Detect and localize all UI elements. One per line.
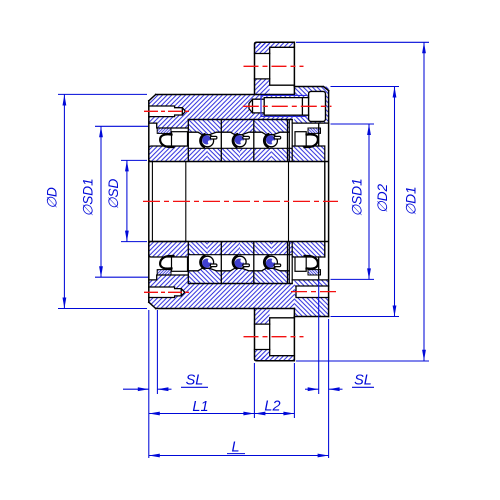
dim OSD1-right extension bottom (331, 278, 375, 280)
joint line 4 bottom (287, 242, 289, 284)
bottom-right through hole (white) (296, 286, 329, 298)
outer block 3 raceway profile bottom (254, 268, 289, 271)
housing bottom-left chamfer (149, 302, 156, 308)
joint line 2 bottom (220, 242, 222, 284)
right seal lip top (305, 134, 318, 147)
dim L1 arrow right (243, 412, 254, 416)
rolling element bottom row 1 (200, 255, 217, 269)
top flange strip under hole (white) (270, 85, 295, 94)
bottom-right hole centerline (red) (291, 291, 337, 293)
dim OSD1-left arrow top (99, 126, 103, 137)
top flange hatched strip (255, 42, 295, 47)
top flange hole outline (270, 47, 295, 85)
rolling element bottom row 3 (264, 255, 281, 269)
dim SL-left tail left (123, 388, 149, 390)
bottom flange left column lines (255, 324, 270, 349)
inner ring band top segment 3 (240, 148, 271, 161)
svg-text:SL: SL (186, 373, 204, 389)
dim L2 arrow right (283, 412, 294, 416)
right seal lip bottom (305, 256, 318, 269)
outer raceway block 3 top (254, 120, 289, 135)
dim OD arrow top (63, 95, 67, 106)
bottom-left mounting hole (white) (149, 287, 185, 298)
left slinger band top (hatched) (149, 146, 189, 162)
housing outer ring top band (hatched) (149, 95, 295, 129)
top-right stud outline (249, 98, 309, 116)
dim SL-left tail right (157, 388, 171, 390)
dim OD1 arrow top (422, 42, 426, 53)
rolling element top row 3 (264, 134, 281, 148)
bottom-left hole centerline (red) (144, 291, 191, 293)
dim L2 arrow left (254, 412, 265, 416)
top flange hole centerline (red) (244, 65, 304, 67)
housing top-left chamfer (149, 95, 156, 101)
right seal body block bottom (295, 257, 306, 271)
top flange left column upper hatch (255, 42, 270, 53)
svg-text:L2: L2 (264, 399, 280, 415)
dim OSD1-left extension bottom (95, 276, 148, 278)
dim OD2 arrow top (393, 87, 397, 98)
bottom-right hole outline (296, 286, 329, 298)
left seal lip bottom (160, 256, 173, 269)
svg-text:∅SD1: ∅SD1 (81, 178, 96, 216)
dim OSD1-right extension top (331, 123, 375, 125)
extension line x=294.4 (293, 363, 295, 418)
joint line 2 top (220, 120, 222, 162)
housing right flange block upper (hatched) (294, 87, 328, 124)
right block left edge lower (293, 309, 295, 317)
dim L1 arrow left (149, 412, 160, 416)
right seal retainer top (fine hatch) (308, 128, 321, 133)
right seal body block top (295, 132, 306, 146)
svg-text:∅D: ∅D (45, 187, 60, 209)
dim OSD line (126, 160, 128, 241)
dim SL-left underline (181, 386, 208, 388)
outer raceway block 2 top (221, 120, 254, 135)
dim SL-left arrow right (157, 387, 168, 391)
dim OD line (63, 95, 65, 309)
housing left face (148, 101, 150, 302)
bearing cavity top line (188, 119, 292, 121)
dim OSD1-right arrow top (367, 124, 371, 135)
dim OD1 line (423, 42, 425, 360)
dim SL-right arrow right (329, 387, 340, 391)
joint line 1 bottom (187, 242, 189, 284)
inner ring band top segment 1 (188, 148, 207, 161)
stud thread lines (blue) (261, 95, 306, 116)
bottom flange left column lower hatch (255, 350, 270, 361)
dim OSD extension top (121, 159, 147, 161)
dim L2 line (254, 413, 294, 415)
joint line 4 top (287, 120, 289, 162)
top-right stud head (white) (309, 91, 326, 121)
bearing cavity bottom line (188, 283, 292, 285)
bottom flange hole centerline (red) (244, 336, 304, 338)
svg-text:∅D1: ∅D1 (404, 186, 419, 215)
svg-text:SL: SL (354, 373, 372, 389)
bottom flange left column window (white) (255, 324, 270, 349)
main horizontal centerline (red) (143, 200, 338, 202)
right seal pocket ceiling top (292, 122, 328, 124)
top-right stud end (white) (249, 99, 264, 113)
bore face line x=185.8 (185, 162, 187, 242)
inner ring band bottom segment 1 (188, 242, 207, 255)
dim SL-right tail left (305, 388, 319, 390)
dim OD2 extension top (331, 86, 400, 88)
top flange bolt hole (white) (270, 47, 295, 85)
inner ring band bottom segment 4 (271, 242, 292, 255)
joint line 1 top (187, 120, 189, 162)
inner ring band bottom segment 3 (240, 242, 271, 255)
outer block 1 raceway profile bottom (188, 268, 221, 271)
extension line x=157.4 (156, 310, 158, 394)
dim OD2 line (394, 87, 396, 317)
left slinger band bottom outline (149, 242, 189, 258)
top flange outline (255, 42, 295, 94)
left seal retainer bottom (fine hatch) (157, 270, 171, 275)
bore face line x=324.8 (324, 162, 326, 242)
right block left edge upper (293, 87, 295, 95)
right block top edge (294, 87, 328, 91)
right slinger band top (hatched) (292, 146, 325, 162)
outer block 3 raceway profile top (254, 132, 289, 135)
svg-text:∅SD: ∅SD (106, 178, 121, 209)
joint line 3 top (253, 120, 255, 162)
bore face line x=288.5 (288, 162, 290, 242)
outer raceway block 1 top (188, 120, 221, 135)
right slinger band bottom outline (292, 242, 325, 258)
right slinger lip top (318, 123, 320, 146)
outer raceway block 1 bottom (188, 268, 221, 283)
outer raceway block 2 bottom (221, 268, 254, 283)
dim L line (149, 455, 329, 457)
dim OD arrow bottom (63, 298, 67, 309)
right block bottom edge (294, 316, 328, 318)
right seal retainer bottom (fine hatch) (308, 270, 321, 275)
svg-text:L1: L1 (192, 399, 208, 415)
dim L1 line (149, 413, 255, 415)
dim SL-right tail right (329, 388, 343, 390)
dim L arrow left (149, 454, 160, 458)
bottom flange outline (255, 309, 295, 361)
right slinger lip bottom (318, 257, 320, 280)
outer block 2 raceway profile bottom (221, 268, 254, 271)
bottom flange left column upper hatch (255, 309, 270, 325)
bore top line (149, 161, 329, 163)
top-right stud centerline (red) (243, 105, 332, 107)
top flange left column lines (255, 54, 270, 79)
svg-text:∅D2: ∅D2 (375, 183, 390, 213)
slot left line top (288, 120, 290, 162)
dim OSD arrow top (125, 160, 129, 171)
right slinger band bottom (hatched) (292, 242, 325, 258)
bottom flange bolt hole (white) (270, 318, 295, 356)
dim OSD1-right line (368, 124, 370, 279)
dim OD extension bottom (58, 308, 147, 310)
inner ring band top segment 4 (271, 148, 292, 161)
dim SL-right arrow left (308, 387, 319, 391)
bottom flange hole outline (270, 318, 295, 356)
dim OSD extension bottom (121, 241, 147, 243)
rolling element top row 2 (233, 134, 250, 148)
dim OSD1-right arrow bottom (367, 268, 371, 279)
left seal pocket step top (149, 123, 189, 128)
housing top edge (156, 94, 295, 96)
dim OSD1-left line (100, 126, 102, 277)
left seal body block bottom (172, 257, 188, 271)
bore bottom line (149, 241, 329, 243)
left seal pocket step bottom (149, 275, 189, 280)
dim OD2 extension bottom (331, 316, 400, 318)
top-left mounting hole (white) (149, 106, 186, 117)
inner ring band top edge (188, 147, 292, 149)
top-left hole centerline (red) (144, 110, 191, 112)
left seal body block top (172, 132, 188, 146)
bottom-left hole outline (149, 287, 185, 298)
extension line x=318.7 (318, 280, 320, 395)
housing outer ring bottom band (hatched) (149, 275, 295, 309)
right block chamfer corner (323, 87, 328, 91)
left seal lip top (160, 134, 173, 147)
joint line 3 bottom (253, 242, 255, 284)
dim OSD1-left arrow bottom (99, 266, 103, 277)
extension line x=254.4 (253, 363, 255, 418)
extension line x=328.6 (328, 319, 330, 458)
inner ring band bottom edge (188, 254, 292, 256)
housing right face (328, 91, 330, 317)
svg-text:∅SD1: ∅SD1 (350, 178, 365, 216)
dim OD1 extension top (296, 41, 429, 43)
outer block 1 raceway profile top (188, 132, 221, 135)
outer raceway block 3 bottom (254, 268, 289, 283)
dim OSD1-left extension top (95, 125, 148, 127)
right seal pocket ceiling bottom (292, 279, 328, 281)
dim OD extension top (58, 93, 147, 95)
top flange left column lower hatch (255, 79, 270, 95)
dim L arrow right (318, 454, 329, 458)
dim L underline (227, 453, 245, 455)
bore face line x=152.4 (151, 162, 153, 242)
extension line x=148.8 (148, 310, 150, 458)
dim OSD arrow bottom (125, 231, 129, 242)
slot right line top (291, 120, 293, 162)
rolling element top row 1 (200, 134, 217, 148)
left slinger band top outline (149, 146, 189, 162)
slot left line bottom (288, 242, 290, 284)
top-right stud shank hole (white) (264, 98, 308, 116)
dim SL-right underline (352, 386, 374, 388)
bottom flange strip above hole (white) (270, 309, 295, 318)
housing right flange block lower (hatched) (294, 280, 328, 317)
dim SL-left arrow left (138, 387, 149, 391)
bottom flange hatched strip (255, 356, 295, 361)
inner ring band bottom segment 2 (208, 242, 241, 255)
left slinger band bottom (hatched) (149, 242, 189, 258)
top-right stud head outline (309, 91, 326, 121)
rolling element bottom row 2 (233, 255, 250, 269)
outer block 2 raceway profile top (221, 132, 254, 135)
slot right line bottom (291, 242, 293, 284)
top-left hole outline (149, 106, 186, 117)
dim OD1 extension bottom (296, 360, 429, 362)
dim OD2 arrow bottom (393, 306, 397, 317)
dim OD1 arrow bottom (422, 350, 426, 361)
housing bottom edge (156, 308, 295, 310)
right slinger band top outline (292, 146, 325, 257)
top flange left column window (white) (255, 54, 270, 79)
left seal retainer top (fine hatch) (157, 128, 171, 133)
inner ring band top segment 2 (208, 148, 241, 161)
